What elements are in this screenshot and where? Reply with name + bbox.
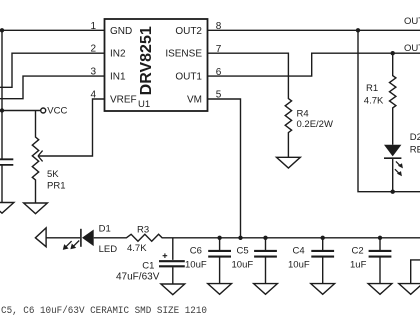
svg-text:GND: GND — [110, 26, 132, 37]
svg-text:R4: R4 — [297, 108, 309, 119]
svg-text:10uF: 10uF — [232, 260, 254, 271]
svg-text:RED: RED — [410, 145, 420, 156]
svg-text:10uF: 10uF — [288, 260, 310, 271]
svg-text:C6: C6 — [190, 245, 202, 256]
svg-text:0.2E/2W: 0.2E/2W — [297, 119, 333, 130]
svg-text:OUT2: OUT2 — [175, 26, 202, 37]
svg-text:C4: C4 — [293, 245, 305, 256]
svg-text:1: 1 — [90, 21, 96, 32]
svg-text:U1: U1 — [138, 99, 150, 110]
svg-text:VCC: VCC — [47, 105, 67, 116]
svg-text:C1: C1 — [142, 261, 154, 272]
svg-text:IN2: IN2 — [110, 49, 126, 60]
svg-text:C2: C2 — [352, 245, 364, 256]
svg-text:4.7K: 4.7K — [364, 96, 384, 107]
svg-text:4: 4 — [90, 90, 96, 101]
svg-text:C5: C5 — [237, 245, 249, 256]
svg-text:DRV8251: DRV8251 — [138, 26, 155, 95]
svg-text:8: 8 — [216, 21, 222, 32]
svg-text:C5, C6 10uF/63V CERAMIC SMD SI: C5, C6 10uF/63V CERAMIC SMD SIZE 1210 — [1, 305, 207, 317]
svg-text:4.7K: 4.7K — [127, 243, 147, 254]
svg-text:D2: D2 — [410, 132, 420, 143]
svg-text:ISENSE: ISENSE — [165, 49, 202, 60]
svg-text:R3: R3 — [137, 224, 149, 235]
svg-text:5K: 5K — [47, 169, 59, 180]
svg-text:D1: D1 — [99, 223, 111, 234]
svg-text:7: 7 — [216, 44, 222, 55]
svg-text:OUT1: OUT1 — [175, 72, 202, 83]
svg-text:OUT2: OUT2 — [404, 16, 420, 27]
svg-text:VREF: VREF — [110, 95, 137, 106]
svg-text:LED: LED — [99, 244, 118, 255]
svg-text:1uF: 1uF — [350, 260, 367, 271]
svg-text:OUT1: OUT1 — [404, 43, 420, 54]
svg-text:2: 2 — [90, 44, 96, 55]
svg-text:10uF: 10uF — [185, 260, 207, 271]
svg-text:VM: VM — [187, 95, 202, 106]
svg-text:47uF/63V: 47uF/63V — [116, 272, 160, 283]
svg-text:6: 6 — [216, 67, 222, 78]
svg-text:3: 3 — [90, 67, 96, 78]
svg-text:5: 5 — [216, 90, 222, 101]
svg-text:IN1: IN1 — [110, 72, 126, 83]
svg-text:R1: R1 — [366, 83, 378, 94]
svg-text:PR1: PR1 — [47, 181, 65, 192]
